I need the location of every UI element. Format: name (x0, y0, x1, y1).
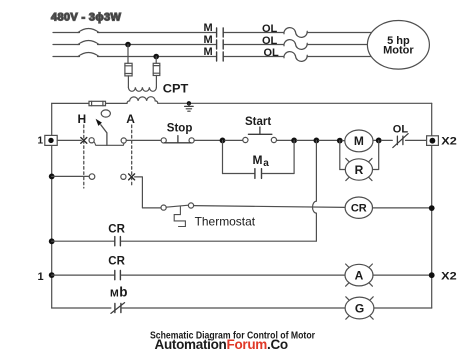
svg-text:Automation: Automation (155, 337, 227, 352)
wire rung1 node to Start (225, 139, 243, 141)
transformer CPT secondary winding (127, 97, 158, 104)
wire Ma branch left (223, 173, 255, 175)
svg-text:M: M (204, 34, 213, 46)
svg-text:M: M (253, 153, 263, 167)
svg-text:M: M (110, 287, 119, 299)
wire rung CR2 left (52, 274, 114, 276)
fuse F2 (153, 63, 160, 75)
wire phase L3 (53, 56, 378, 58)
wire R branch down (340, 141, 346, 170)
wire Ma branch right (262, 140, 294, 173)
svg-text:M: M (204, 22, 213, 34)
selector terminal circle A rung2 (121, 174, 126, 179)
wire rung1 from terminal 1 (57, 139, 81, 141)
wire contact OL to terminal X2 (406, 139, 427, 141)
wire coil CR to right rail (373, 207, 432, 209)
fuse F1 (125, 63, 132, 76)
svg-text:OL: OL (393, 123, 409, 135)
svg-text:A: A (355, 268, 364, 282)
pushbutton Stop (NC) (161, 136, 194, 143)
node CR feed (314, 138, 320, 144)
wire left rail (51, 103, 53, 308)
selector bridge (94, 142, 124, 145)
wire rung1 node to MR node (319, 139, 337, 141)
wire coil M to node (373, 139, 376, 141)
wire rung Mb left (52, 307, 111, 309)
ground (185, 103, 194, 111)
thermostat bimetal element (174, 206, 185, 226)
motor M1 5 hp (367, 21, 429, 70)
wire R branch right (373, 140, 379, 169)
contact Mb (NC) (111, 303, 125, 314)
wire secondary to right rail (158, 102, 432, 104)
contactor contact M pole L3 (217, 52, 224, 61)
selector knob (101, 110, 110, 117)
selector terminal circle H rung1 (89, 138, 94, 143)
wire coil A to right rail (373, 274, 432, 276)
contact CR1 (NO) (115, 237, 121, 246)
node CR1 rail (49, 238, 55, 244)
supply break arc L3 (78, 53, 99, 57)
coil M (345, 130, 373, 152)
node ground tap (187, 101, 191, 105)
selector dashed line H (83, 125, 85, 188)
wire fuse F1 to CPT primary (127, 76, 129, 87)
wire secondary to control fuse (106, 102, 128, 104)
overload heater OL L2 (284, 40, 307, 50)
svg-text:X2: X2 (441, 136, 457, 148)
wire phase L2 (53, 44, 383, 46)
wire tap L3 to fuse F2 (155, 57, 157, 64)
svg-text:a: a (263, 158, 269, 169)
svg-text:Start: Start (245, 116, 271, 128)
wire rung1 node to coil M (342, 140, 345, 142)
contact Ma (NO) (255, 169, 262, 179)
fuse F3 control (89, 101, 106, 105)
contact CR2 (NO) (115, 271, 121, 280)
wire control fuse to left rail (52, 102, 89, 104)
wire rung CR2 to coil A (121, 274, 345, 276)
node CR rail (429, 205, 435, 211)
thermostat switch (161, 203, 194, 210)
node MR rejoin (376, 138, 382, 144)
svg-text:b: b (119, 285, 127, 300)
selector terminal circle A rung1 (121, 138, 126, 143)
wire rung1 Start to node (277, 139, 292, 141)
svg-text:OL: OL (262, 23, 278, 35)
contact OL (NC) (393, 134, 408, 148)
wire node to contact OL (381, 139, 392, 141)
wire thermostat to coil CR (194, 206, 345, 208)
svg-text:X2: X2 (441, 271, 457, 283)
wire phase L1 (53, 32, 378, 34)
wire CR feed vertical with hop (312, 140, 316, 241)
svg-text:A: A (126, 112, 135, 126)
node Ma split (220, 138, 226, 144)
selector lever arrow (96, 119, 107, 146)
coil G (345, 297, 374, 319)
svg-text:1: 1 (38, 136, 44, 147)
node CR2 rail (49, 272, 55, 278)
wire coil G to right rail (374, 307, 432, 309)
svg-text:H: H (78, 112, 87, 126)
selector dashed line A (131, 125, 133, 187)
coil CR (345, 197, 372, 218)
svg-text:Stop: Stop (167, 122, 193, 134)
wire right rail (431, 103, 433, 308)
wire rung2 rail to H terminal (52, 175, 89, 177)
svg-text:CR: CR (108, 256, 125, 268)
wire rung1 selector to Stop (126, 139, 161, 141)
contactor contact M pole L2 (217, 40, 224, 49)
caption brand (155, 337, 288, 352)
transformer CPT primary winding (128, 87, 156, 91)
label Mb (110, 285, 128, 300)
node MR split (337, 138, 343, 144)
node tap L3 (153, 54, 159, 60)
selector contact X (A position, rung2) (129, 174, 135, 180)
overload heater OL L1 (284, 28, 307, 38)
svg-text:OL: OL (264, 47, 280, 59)
selector contact X (H position, rung1) (81, 138, 87, 144)
coil R (345, 158, 372, 180)
svg-text:CPT: CPT (163, 82, 189, 96)
node tap L2 (125, 42, 131, 48)
svg-text:R: R (355, 163, 364, 177)
label Ma (253, 153, 270, 169)
wire rung1 node to CR node (297, 139, 314, 141)
wire rung CR1 left (52, 240, 114, 242)
wire rung Mb to coil G (122, 307, 345, 309)
svg-text:480V - 3ϕ3W: 480V - 3ϕ3W (51, 11, 121, 23)
svg-text:Forum: Forum (227, 337, 268, 352)
terminal 1 (top) (45, 135, 57, 145)
svg-text:CR: CR (351, 203, 367, 215)
wire rung2 to thermostat (135, 177, 161, 208)
overload heater OL L3 (284, 52, 307, 62)
supply break arc L2 (78, 41, 99, 45)
selector terminal circle H rung2 (89, 174, 95, 180)
svg-text:Thermostat: Thermostat (195, 215, 256, 229)
svg-text:G: G (355, 301, 364, 315)
wire Ma branch down (222, 140, 224, 173)
terminal X2 (top) (427, 136, 439, 146)
svg-text:OL: OL (262, 35, 278, 47)
wire rung1 Stop to node (194, 139, 220, 141)
wire rung CR1 right (121, 240, 316, 242)
svg-text:M: M (354, 134, 364, 148)
svg-text:M: M (204, 46, 213, 58)
node rung2 rail (49, 174, 55, 180)
contactor contact M pole L1 (217, 28, 224, 37)
node A rail X2 (429, 272, 435, 278)
svg-text:.Co: .Co (267, 337, 288, 352)
supply break arc L1 (78, 29, 99, 33)
svg-text:Motor: Motor (383, 45, 414, 57)
node Ma rejoin (291, 138, 297, 144)
coil A (345, 264, 373, 286)
pushbutton Start (NO) (243, 127, 277, 143)
wire tap L2 to fuse F1 (127, 45, 129, 64)
wire fuse F2 to CPT primary (155, 76, 157, 88)
svg-text:CR: CR (108, 223, 125, 235)
svg-text:1: 1 (38, 271, 44, 283)
